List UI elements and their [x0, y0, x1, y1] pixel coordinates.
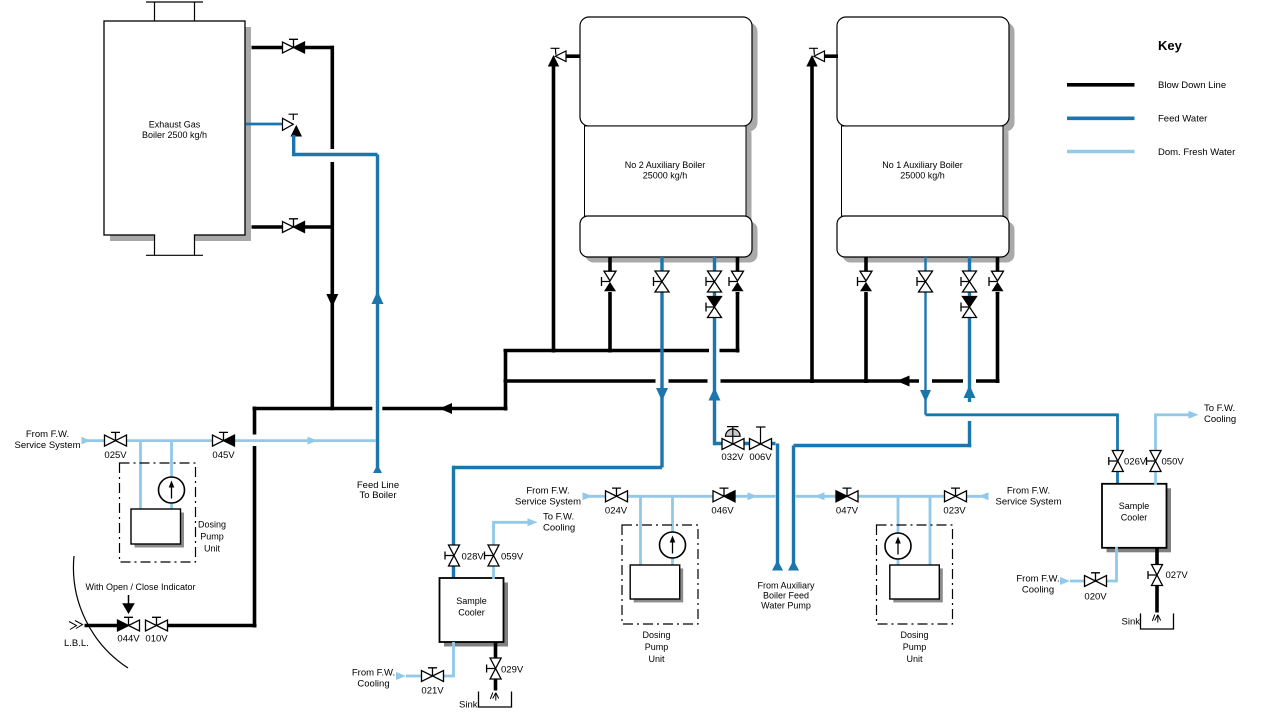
svg-text:010V: 010V [145, 634, 168, 645]
wire left blowdown drop [253, 407, 257, 628]
svg-text:020V: 020V [1084, 592, 1107, 603]
svg-text:Dosing: Dosing [198, 520, 226, 530]
valve no2 line4 [729, 271, 744, 291]
svg-text:Exhaust Gas: Exhaust Gas [149, 120, 201, 130]
svg-text:From Auxiliary: From Auxiliary [757, 581, 815, 591]
no1 boiler bottom drum [837, 216, 1009, 257]
svg-text:Pump: Pump [200, 532, 224, 542]
actuator dome on 032V [726, 427, 741, 444]
wire 027V drain [1155, 548, 1159, 613]
svg-text:Sink: Sink [1122, 617, 1141, 628]
chevrons at line start [69, 621, 83, 630]
wire blow down top from exhaust boiler [252, 46, 284, 50]
dosing pump circle middle [660, 532, 686, 558]
valve no2 line3 lower [706, 297, 722, 318]
tall stem on 006V [756, 427, 766, 444]
valve 050V [1147, 451, 1162, 472]
svg-text:With Open / Close Indicator: With Open / Close Indicator [85, 582, 195, 592]
wire feed water drop from valve [292, 135, 295, 156]
wire 021V cooling inlet [406, 642, 454, 676]
wire feed water horizontal jog [294, 153, 378, 156]
arrow left after 023V [979, 492, 989, 500]
valve no1 line3 upper [961, 271, 977, 292]
valve exhaust bottom blowdown [283, 219, 305, 233]
svg-text:From F.W.: From F.W. [1007, 486, 1050, 497]
arrow up into exhaust feed valve [291, 125, 303, 137]
svg-text:25000 kg/h: 25000 kg/h [900, 170, 945, 180]
svg-text:Water Pump: Water Pump [761, 601, 811, 611]
valve 025V [105, 432, 127, 446]
wire vent riser to no2 boiler [552, 66, 556, 353]
svg-text:No 2 Auxiliary Boiler: No 2 Auxiliary Boiler [625, 160, 706, 170]
arrow up on no2 vent riser [548, 55, 559, 67]
legend swatch dom fresh water [1067, 150, 1135, 154]
sink right [1141, 614, 1174, 630]
valve no1 line1 [858, 271, 873, 291]
wire middle fresh water line [586, 495, 988, 498]
wire pump to tank middle [671, 557, 674, 566]
svg-text:From F.W.: From F.W. [26, 429, 69, 440]
arrow up at right riser tip [788, 560, 799, 571]
legend swatch blow down line [1067, 83, 1135, 87]
valve 006V [750, 439, 772, 450]
wire feed pump riser left [776, 444, 779, 571]
wire vent stub into no2 boiler [566, 54, 581, 58]
wire no1 sample feed drop to 026V [1116, 414, 1119, 486]
wire lower header y381 [504, 379, 1000, 383]
valve 024V [606, 488, 628, 502]
wire pump to tank left [170, 502, 173, 510]
arrow right from FW cooling middle [396, 672, 406, 680]
valve no2 vent [551, 48, 567, 61]
valve 059V [485, 545, 500, 566]
svg-text:25000 kg/h: 25000 kg/h [643, 170, 688, 180]
valve 027V [1148, 565, 1163, 586]
L.B.L. hull arc [73, 556, 128, 668]
arrow left on lower header [897, 376, 910, 387]
wire no2 line4 blowdown [736, 257, 740, 294]
valve 010V [146, 617, 168, 631]
valve exhaust top blowdown [283, 39, 305, 53]
valve no1 line2 [917, 271, 933, 292]
svg-text:To F.W.: To F.W. [1204, 403, 1235, 414]
wire no1 line3 feed upper [968, 257, 971, 402]
wire drop to dosing pump left [170, 441, 173, 478]
svg-text:047V: 047V [836, 506, 859, 517]
arrow up on feed riser [372, 291, 384, 304]
svg-text:From F.W.: From F.W. [526, 486, 569, 497]
svg-text:Unit: Unit [906, 654, 923, 664]
svg-text:028V: 028V [462, 552, 485, 563]
arrow up on no1 vent riser [806, 55, 817, 67]
svg-text:Sink: Sink [459, 700, 478, 711]
svg-text:Boiler Feed: Boiler Feed [763, 591, 809, 601]
valve no1 line3 lower [961, 297, 977, 318]
svg-text:Sample: Sample [456, 596, 487, 606]
wire blow down top to riser [304, 46, 334, 50]
right sample cooler box [1102, 484, 1167, 548]
svg-text:Service System: Service System [15, 440, 81, 451]
svg-text:Dosing: Dosing [900, 630, 928, 640]
svg-text:045V: 045V [212, 450, 235, 461]
dosing tank middle [630, 565, 680, 599]
svg-text:Unit: Unit [648, 654, 665, 664]
wire 020V cooling inlet [1070, 547, 1117, 581]
wire exhaust blowdown riser [330, 46, 334, 411]
valve 021V [422, 668, 444, 682]
no2 boiler middle shell [585, 126, 747, 216]
svg-text:Cooler: Cooler [1121, 513, 1148, 523]
svg-text:Cooling: Cooling [543, 523, 575, 534]
arrow down on no1 line2 [920, 390, 931, 402]
dosing tank shadow left [135, 513, 185, 548]
wire upper header y350 [504, 349, 740, 353]
wire no1 line2 sample feed [924, 257, 926, 415]
wire no1 line4 corner riser [996, 292, 1000, 383]
svg-text:027V: 027V [1166, 570, 1189, 581]
svg-text:059V: 059V [501, 552, 524, 563]
dosing tank shadow middle [634, 568, 684, 602]
dosing tank left [131, 509, 181, 544]
wire 029V drain [494, 642, 498, 691]
valve 044V [118, 617, 140, 631]
dash-dot boundary left dosing unit [120, 463, 196, 562]
wire left fresh water line [84, 439, 376, 442]
wire no1 line3 feed lower [968, 421, 971, 447]
svg-text:025V: 025V [104, 450, 127, 461]
svg-text:Cooling: Cooling [1022, 585, 1054, 596]
arrow right on left fresh water line [308, 437, 318, 445]
wire pump to tank right [897, 558, 900, 566]
arrow up on no1 line3 [964, 385, 976, 398]
svg-text:Unit: Unit [204, 544, 221, 554]
exhaust gas boiler top stub [146, 2, 203, 21]
svg-text:024V: 024V [605, 506, 628, 517]
wire no2 line3 feed [713, 257, 716, 445]
svg-text:050V: 050V [1162, 457, 1185, 468]
svg-text:Service System: Service System [515, 496, 581, 507]
valve 020V [1085, 573, 1107, 587]
valve no2 line2 [654, 271, 670, 292]
valve 026V [1109, 451, 1124, 472]
wire no1 line1 blowdown [864, 257, 868, 383]
wire no1 sample feed horizontal [926, 413, 1118, 416]
wire blow down bottom to riser [304, 225, 334, 229]
wire blow down bottom from exhaust boiler [252, 225, 284, 229]
wire feed water stub into exhaust boiler [246, 123, 283, 126]
svg-text:044V: 044V [117, 634, 140, 645]
wire no2 sample feed horizontal [454, 466, 663, 469]
valve no2 line3 upper [706, 271, 722, 292]
valve exhaust feed inlet [283, 114, 299, 130]
arrow up on no2 line3 [709, 388, 721, 401]
arrow left before 047V [815, 492, 825, 500]
wire feed line to boiler riser [376, 155, 379, 472]
exhaust gas boiler shadow [110, 27, 251, 241]
svg-text:Cooling: Cooling [1204, 414, 1236, 425]
wire no2 line2 sample feed upper [660, 257, 663, 468]
no1 boiler middle shell [842, 126, 1004, 216]
valve no1 line4 [989, 271, 1004, 291]
legend swatch feed water [1067, 117, 1135, 121]
svg-text:021V: 021V [421, 686, 444, 697]
wire bottom blowdown run to LBL [85, 624, 257, 628]
svg-text:023V: 023V [943, 506, 966, 517]
wire drop to dosing tank middle [639, 497, 642, 566]
wire no1 feed run right [794, 444, 972, 447]
svg-text:Cooling: Cooling [357, 679, 389, 690]
wire main header lower left [253, 407, 508, 411]
no1 boiler shadows [843, 23, 1015, 132]
wire 050V cooling outlet [1156, 415, 1189, 485]
svg-text:From F.W.: From F.W. [1016, 574, 1059, 585]
dosing pump circle right [885, 533, 911, 559]
valve 047V [836, 488, 858, 502]
svg-text:Key: Key [1158, 38, 1183, 53]
dosing tank right [890, 565, 940, 599]
arrow right from FW cooling right [1060, 577, 1070, 585]
svg-text:Boiler 2500 kg/h: Boiler 2500 kg/h [142, 130, 207, 140]
svg-text:046V: 046V [711, 506, 734, 517]
arrow right to FW cooling middle [528, 518, 538, 526]
arrow right at left line start [82, 437, 91, 445]
svg-text:No 1 Auxiliary Boiler: No 1 Auxiliary Boiler [882, 160, 963, 170]
no2 boiler shadows [586, 23, 758, 132]
svg-text:029V: 029V [501, 665, 524, 676]
wire vent stub into no1 boiler [825, 54, 839, 58]
dosing pump circle left [159, 477, 185, 503]
svg-text:006V: 006V [749, 452, 772, 463]
arrow down on exhaust blowdown riser [326, 294, 338, 307]
middle sample cooler box [440, 578, 504, 642]
svg-text:Service System: Service System [996, 496, 1062, 507]
valve 023V [945, 488, 967, 502]
arrow open close indicator [124, 595, 134, 613]
sink middle [479, 692, 512, 708]
dosing tank shadow right [893, 568, 943, 602]
no2 boiler bottom drum [580, 216, 752, 257]
valve 045V [213, 432, 235, 446]
no1 boiler top drum [837, 17, 1009, 126]
svg-text:Cooler: Cooler [458, 608, 485, 618]
svg-text:Pump: Pump [903, 642, 927, 652]
valve 028V [445, 545, 460, 566]
svg-text:To F.W.: To F.W. [543, 512, 574, 523]
valve no2 line1 [602, 271, 617, 291]
wire drop to dosing pump middle [671, 497, 674, 533]
wire no2 sample feed drop to 028V [452, 466, 455, 579]
wire drop to dosing tank left [139, 441, 142, 510]
arrow right at middle line start [583, 492, 593, 500]
dash-dot boundary middle dosing unit [622, 525, 698, 624]
svg-text:032V: 032V [721, 452, 744, 463]
valve 046V [713, 488, 735, 502]
arrow up at feed line bottom end [373, 465, 382, 474]
exhaust gas boiler bottom stub [146, 234, 203, 256]
wire no2 line4 corner riser [736, 292, 740, 353]
right sample cooler shadow [1107, 488, 1172, 552]
middle sample cooler shadow [444, 583, 508, 647]
arrow down on no2 line2 [656, 388, 668, 401]
wire 032V 006V feed run [715, 442, 776, 445]
exhaust gas boiler body [104, 21, 245, 235]
wire drop to dosing pump right [897, 497, 900, 534]
svg-text:Dom. Fresh Water: Dom. Fresh Water [1158, 147, 1235, 158]
svg-text:Sample: Sample [1119, 501, 1150, 511]
wire no2 line1 blowdown [608, 257, 612, 353]
wire drop to dosing tank right [929, 497, 932, 566]
valve 032V [722, 439, 744, 450]
svg-text:L.B.L.: L.B.L. [64, 638, 89, 649]
svg-text:To Boiler: To Boiler [360, 490, 397, 501]
wire no1 line4 blowdown [996, 257, 1000, 294]
valve 029V [487, 658, 502, 679]
svg-text:From F.W.: From F.W. [352, 668, 395, 679]
svg-text:Blow Down Line: Blow Down Line [1158, 80, 1226, 91]
wire vent riser to no1 boiler [810, 66, 814, 383]
wire feed pump riser right [792, 446, 795, 571]
arrow left on main header [440, 403, 453, 414]
svg-text:Dosing: Dosing [642, 630, 670, 640]
no2 boiler top drum [580, 17, 752, 126]
svg-text:Pump: Pump [645, 642, 669, 652]
valve no1 vent [809, 48, 825, 61]
arrow up at left riser tip [772, 560, 783, 571]
svg-text:026V: 026V [1124, 457, 1147, 468]
wire 059V cooling outlet [494, 522, 528, 579]
svg-text:Feed Water: Feed Water [1158, 114, 1207, 125]
arrow right to FW cooling right [1189, 411, 1199, 419]
dash-dot boundary right dosing unit [877, 525, 953, 624]
wire header step riser [504, 351, 508, 411]
arrow right after 046V [748, 492, 758, 500]
